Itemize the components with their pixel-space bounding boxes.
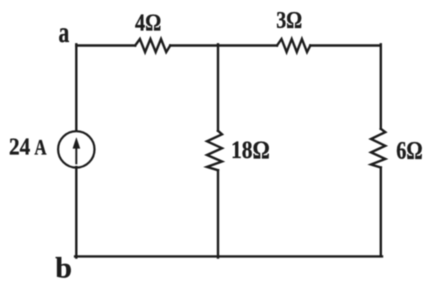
current source I1 arrow	[73, 138, 80, 163]
wire bottom (node b to bottom right corner)	[75, 255, 382, 257]
wire right bottom (6ohm to bottom right corner)	[380, 168, 382, 257]
svg-text:A: A	[34, 134, 46, 159]
wire middle top (top node to 18ohm)	[217, 44, 219, 131]
resistor R1 4ohm zigzag	[135, 39, 170, 52]
wire top-left (node a to R1)	[76, 44, 135, 46]
svg-text:3Ω: 3Ω	[276, 8, 302, 34]
svg-text:18Ω: 18Ω	[231, 135, 270, 164]
resistor R4 6ohm zigzag	[371, 129, 385, 168]
svg-text:24: 24	[9, 134, 30, 160]
resistor R3 18ohm zigzag	[207, 131, 222, 170]
svg-text:b: b	[55, 251, 72, 283]
current source I1 circle	[58, 131, 94, 167]
resistor R2 3ohm zigzag	[277, 39, 310, 52]
wire top-middle (R1 to R2 through node above 18ohm)	[170, 44, 277, 46]
wire right top (top right corner to 6ohm)	[380, 44, 382, 129]
svg-text:a: a	[59, 16, 70, 49]
svg-text:4Ω: 4Ω	[135, 11, 161, 37]
svg-text:6Ω: 6Ω	[396, 135, 422, 164]
wire left top (node a to current source)	[75, 44, 77, 131]
wire left bottom (current source to node b)	[75, 167, 77, 257]
wire top-right (R2 to top right corner)	[310, 44, 381, 46]
wire middle bottom (18ohm to bottom wire)	[217, 170, 219, 257]
